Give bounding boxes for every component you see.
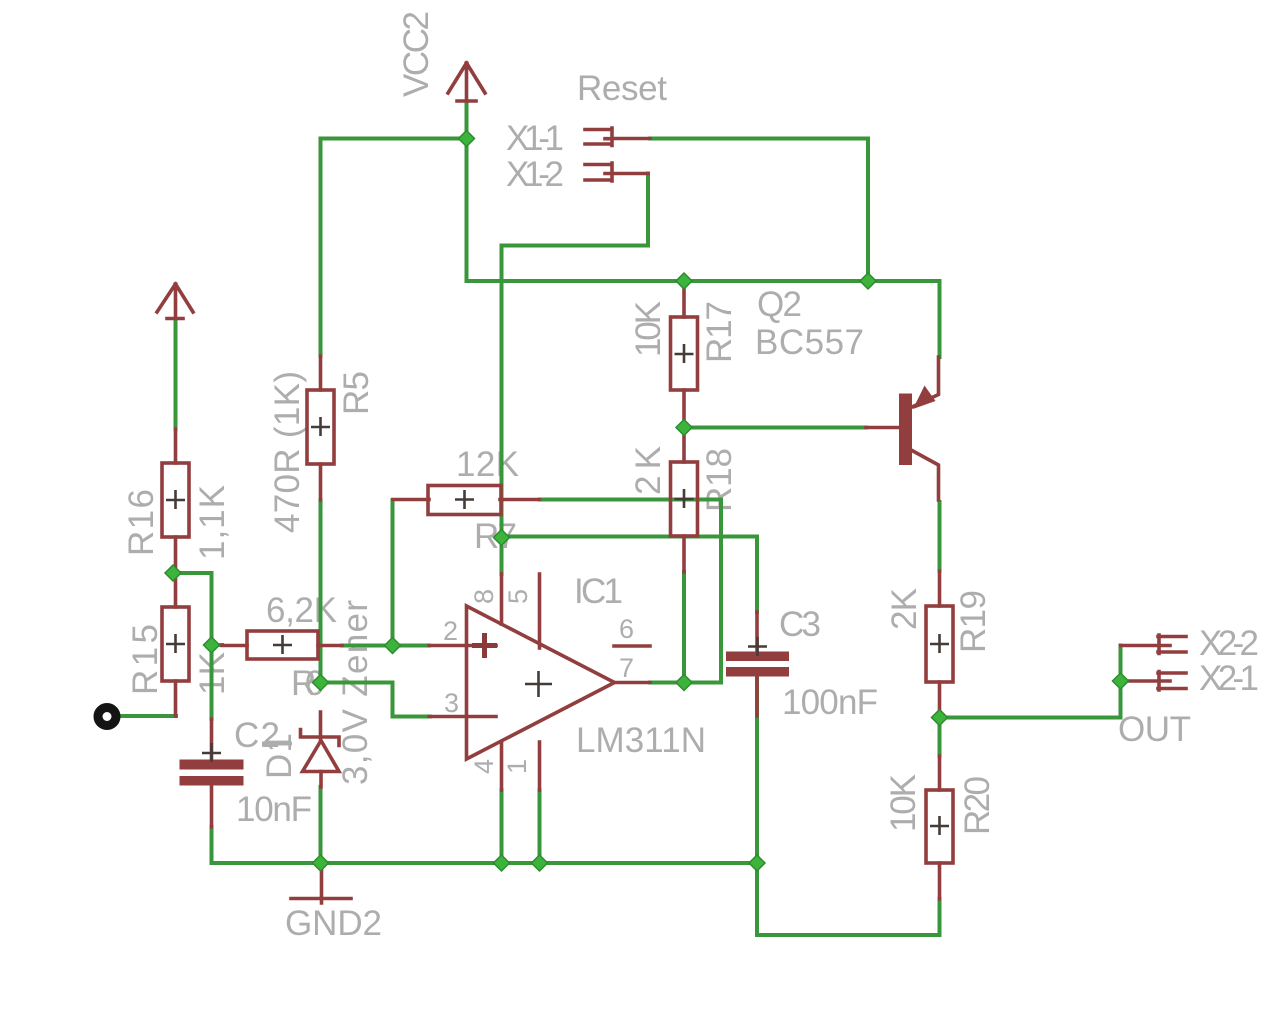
svg-text:100nF: 100nF [782, 683, 878, 722]
svg-text:X2-1: X2-1 [1199, 659, 1259, 698]
svg-text:2: 2 [443, 616, 458, 646]
svg-text:OUT: OUT [1118, 710, 1191, 749]
svg-text:BC557: BC557 [755, 323, 864, 362]
svg-text:8: 8 [469, 589, 499, 604]
svg-text:12K: 12K [456, 445, 519, 484]
svg-text:VCC2: VCC2 [397, 11, 436, 97]
svg-text:R5: R5 [337, 371, 376, 415]
svg-text:3: 3 [444, 688, 459, 718]
svg-text:Q2: Q2 [757, 285, 802, 324]
svg-text:GND2: GND2 [285, 904, 382, 943]
svg-text:4: 4 [469, 759, 499, 774]
svg-text:R17: R17 [700, 301, 739, 363]
svg-text:3,0V Zener: 3,0V Zener [336, 600, 375, 785]
svg-text:R20: R20 [958, 776, 997, 835]
svg-text:Reset: Reset [577, 69, 667, 108]
svg-text:C3: C3 [779, 605, 821, 644]
svg-text:X2-2: X2-2 [1199, 624, 1259, 663]
svg-text:470R (1K): 470R (1K) [268, 371, 307, 533]
svg-text:R16: R16 [122, 489, 161, 556]
svg-text:D1: D1 [260, 733, 299, 779]
svg-text:R19: R19 [954, 590, 993, 653]
svg-text:10nF: 10nF [236, 790, 312, 829]
svg-text:IC1: IC1 [574, 572, 623, 611]
svg-text:2K: 2K [885, 588, 924, 630]
svg-text:1: 1 [502, 759, 532, 774]
svg-text:R15: R15 [126, 624, 165, 695]
svg-text:1,1K: 1,1K [193, 485, 232, 560]
svg-text:X1-2: X1-2 [506, 155, 564, 194]
svg-text:LM311N: LM311N [576, 721, 706, 760]
svg-text:X1-1: X1-1 [506, 119, 564, 158]
svg-text:7: 7 [619, 653, 634, 683]
svg-text:10K: 10K [629, 301, 668, 357]
svg-text:6,2K: 6,2K [266, 591, 337, 630]
svg-text:6: 6 [619, 614, 634, 644]
svg-text:5: 5 [503, 589, 533, 604]
svg-text:10K: 10K [884, 774, 923, 832]
